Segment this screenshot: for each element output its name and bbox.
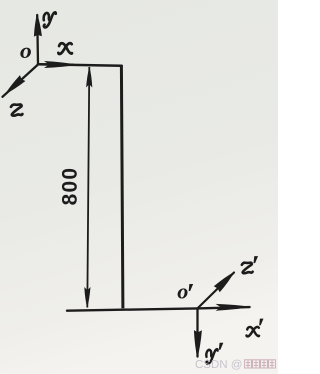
dimension arrowhead down (84, 287, 90, 308)
arrowhead z-prime (214, 272, 235, 293)
wire: top horizontal rod segment from o to corner (38, 64, 122, 66)
label z-prime (254, 256, 258, 263)
label y (44, 12, 56, 27)
arrowhead y-prime (194, 330, 202, 358)
label o (origin) (20, 48, 31, 58)
arrowhead y (34, 14, 42, 37)
value label 800 (rotated) (62, 169, 77, 205)
dimension line (800) (87, 67, 89, 308)
arrowhead x (44, 61, 78, 68)
wire: bottom base line through origin o-prime (67, 307, 250, 311)
axis y-prime of frame o-prime (196, 308, 198, 356)
label o-prime (origin) (178, 284, 194, 299)
arrowhead x-prime (216, 304, 252, 311)
axis z-prime of frame o-prime (198, 273, 235, 309)
label x (58, 43, 73, 55)
watermark chinese characters (245, 360, 276, 368)
label x-prime (259, 319, 263, 326)
dimension arrowhead up (86, 67, 92, 88)
axis y of frame o (36, 15, 39, 64)
label z (11, 105, 22, 116)
axis z of frame o (3, 65, 39, 97)
label y-prime (219, 343, 223, 350)
arrowhead z (5, 75, 25, 94)
watermark CSDN (196, 360, 242, 370)
axis x of frame o (38, 63, 73, 66)
wire: vertical rod segment from corner down to base line (121, 65, 123, 308)
